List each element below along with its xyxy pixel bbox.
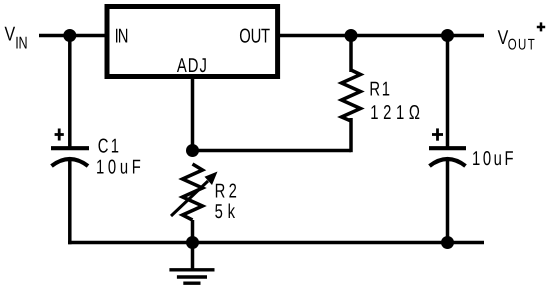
wire R1 bottom vertical (349, 118, 353, 152)
junction dot at ground node (186, 236, 199, 249)
wire ground stem (191, 243, 195, 270)
capacitor C1 top plate (51, 146, 89, 150)
junction dot at VOUT node (441, 29, 454, 42)
svg-text:10uF: 10uF (472, 148, 516, 170)
plus sign of C1 (55, 129, 64, 141)
plus sign of VOUT (537, 22, 545, 31)
svg-text:C1: C1 (98, 136, 122, 158)
capacitor C2 top plate (429, 146, 466, 150)
svg-text:ADJ: ADJ (177, 55, 208, 77)
wire C1 branch vertical upper (68, 36, 72, 147)
capacitor C1 curved plate (52, 159, 89, 166)
ground symbol (169, 270, 214, 283)
junction dot at bottom right (441, 236, 454, 249)
wire box OUT to VOUT stub (278, 34, 484, 38)
potentiometer R2 arrow (171, 172, 218, 217)
wire C1 branch vertical lower (68, 160, 72, 244)
svg-text:IN: IN (115, 26, 128, 48)
wire VIN to box (39, 34, 107, 38)
regulator U1 box (107, 7, 278, 77)
wire right cap vertical upper (446, 36, 450, 147)
capacitor C2 curved plate (430, 159, 466, 166)
wire ADJ to R1 bottom horizontal (193, 149, 352, 153)
node VOUT label (498, 27, 537, 53)
junction dot at ADJ node (186, 144, 199, 157)
junction dot at VIN node (63, 29, 76, 42)
potentiometer R2 zigzag (183, 164, 203, 220)
svg-text:10uF: 10uF (96, 157, 144, 179)
node VIN label (5, 24, 28, 53)
resistor R1 zigzag (342, 70, 361, 121)
svg-text:OUT: OUT (508, 36, 536, 53)
wire R2 bottom vertical (191, 220, 195, 243)
wire right cap vertical lower (446, 160, 450, 243)
svg-text:R1: R1 (369, 78, 391, 100)
svg-text:OUT: OUT (239, 26, 270, 48)
svg-text:V: V (5, 24, 16, 46)
svg-text:5k: 5k (215, 201, 240, 223)
junction dot at R1 top (345, 29, 358, 42)
svg-text:R2: R2 (215, 181, 240, 203)
wire R1 top vertical (349, 36, 353, 73)
plus sign of C2 (432, 128, 443, 140)
svg-text:IN: IN (15, 33, 27, 52)
svg-text:121Ω: 121Ω (370, 102, 424, 124)
wire bottom rail (68, 241, 484, 245)
wire ADJ stem (191, 76, 195, 151)
